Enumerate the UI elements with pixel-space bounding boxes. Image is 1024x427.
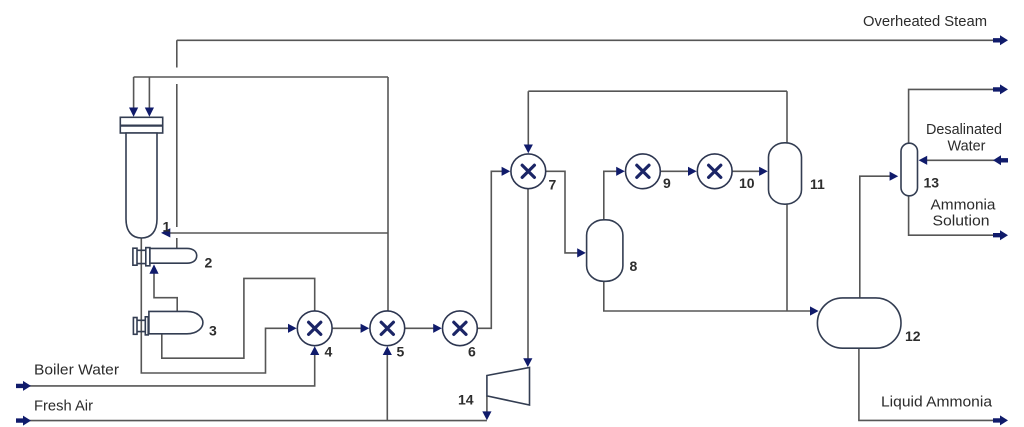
svg-text:2: 2 — [205, 255, 213, 271]
svg-text:8: 8 — [630, 258, 638, 274]
svg-text:Fresh Air: Fresh Air — [34, 398, 93, 415]
mixer 4 cross — [309, 322, 321, 334]
svg-text:11: 11 — [810, 176, 825, 192]
svg-text:Boiler Water: Boiler Water — [34, 362, 119, 379]
drum 2 body — [150, 248, 197, 263]
wire mixer 7 down to turbine 14 — [527, 189, 529, 360]
svg-text:Solution: Solution — [933, 213, 990, 230]
drum 2 left flange outer — [133, 248, 137, 265]
drum 3 neck tube — [137, 320, 145, 331]
svg-text:13: 13 — [924, 175, 940, 191]
arrow into vessel 11 left — [759, 167, 768, 176]
vessel 8 — [587, 220, 623, 281]
wire vessel 12 bottom to liquid ammonia outlet — [859, 348, 1000, 420]
svg-text:6: 6 — [468, 344, 476, 360]
svg-text:9: 9 — [663, 175, 671, 191]
arrow into mixer 10 left — [688, 167, 697, 176]
vessel 1 cap flange — [120, 117, 162, 133]
arrow into vessel 13 right — [919, 156, 928, 165]
drum 3 left flange outer — [133, 318, 137, 335]
block arrow fresh air inlet — [16, 416, 31, 426]
wire mixer 7 top riser and header to vessel 11 — [528, 91, 787, 146]
wire mixer 6 right up into mixer 7 — [477, 171, 503, 328]
arrow into vessel 13 left — [890, 172, 899, 181]
svg-text:12: 12 — [905, 328, 921, 344]
svg-text:Water: Water — [948, 138, 986, 155]
block arrow liquid ammonia outlet — [993, 415, 1008, 425]
arrow into vessel 12 left — [810, 306, 819, 315]
block arrow desalinated water inlet (points left) — [993, 155, 1008, 165]
svg-text:4: 4 — [325, 344, 333, 360]
wire desalinated water inlet — [926, 159, 1006, 161]
wire drop into vessel 1 cap right — [148, 77, 150, 108]
arrow into mixer 9 left — [616, 167, 625, 176]
wire y233 return line into vessel 1 bottom — [169, 232, 388, 234]
svg-text:Ammonia: Ammonia — [931, 197, 997, 214]
wire steam riser from item 2 top to header (segments with crossing gaps) — [176, 40, 178, 248]
vessel 1 body — [126, 133, 157, 238]
mixer 6 cross — [454, 322, 466, 334]
wire mixer 7 to vessel 8 — [546, 171, 578, 253]
wire mixer 10 to vessel 11 — [732, 170, 760, 172]
mixer 9 — [626, 154, 661, 189]
wire boiler water inlet — [29, 355, 315, 386]
arrow into mixer 4 left — [288, 324, 297, 333]
arrow down at fresh air line end — [482, 411, 491, 420]
arrow into mixer 6 left — [433, 324, 442, 333]
wire vessel 12 top to vessel 13 left — [860, 176, 891, 298]
wire drop into vessel 1 cap left — [133, 77, 135, 108]
wire mixer 4 to mixer 5 — [332, 327, 362, 329]
drum 3 body — [149, 311, 203, 333]
mixer 5 — [370, 311, 405, 346]
svg-text:Overheated Steam: Overheated Steam — [863, 13, 987, 30]
mixer 6 — [443, 311, 478, 346]
arrow into vessel 8 left — [577, 248, 586, 257]
mixer 7 — [511, 154, 546, 189]
mixer circles — [297, 154, 732, 346]
arrow into mixer 7 left — [502, 167, 511, 176]
vessel 12 — [817, 298, 901, 348]
wire mixer 9 to mixer 10 — [660, 170, 689, 172]
vessel 11 — [769, 143, 802, 204]
mixer 10 cross — [709, 165, 721, 177]
arrow into turbine 14 top — [523, 358, 532, 367]
arrow into vessel 1 cap right — [145, 108, 154, 117]
svg-text:Liquid Ammonia: Liquid Ammonia — [881, 394, 993, 411]
wire vessel 11 bottom to junction — [786, 204, 788, 311]
drum 2 neck tube — [137, 250, 146, 263]
svg-text:5: 5 — [397, 344, 405, 360]
svg-text:14: 14 — [458, 392, 474, 408]
mixer 4 — [297, 311, 332, 346]
wire fresh air inlet — [29, 420, 487, 422]
block arrow boiler water inlet — [16, 381, 31, 391]
wire mixer 5 to mixer 6 — [405, 327, 435, 329]
wire turbine 14 exhaust down to fresh air line — [486, 396, 488, 412]
drum 2 left flange inner — [146, 248, 150, 266]
block arrow desalinated top outlet — [993, 84, 1008, 94]
wire vessel 8 top to mixer 9 — [604, 171, 617, 220]
arrow into mixer 5 bottom — [383, 346, 392, 355]
wire fresh air branch up into mixer 5 — [386, 355, 388, 421]
svg-text:7: 7 — [549, 177, 557, 193]
mixer 5 cross — [381, 322, 393, 334]
wire item 3 to item 2 feed — [154, 271, 177, 311]
arrow into mixer 4 bottom — [310, 346, 319, 355]
arrow into vessel 1 cap left — [129, 108, 138, 117]
svg-text:Desalinated: Desalinated — [926, 121, 1002, 138]
mixer 10 — [697, 154, 732, 189]
wire overheated steam header from x176 to right edge — [177, 39, 1000, 41]
arrow into mixer 7 top — [524, 145, 533, 154]
arrow into mixer 5 left — [361, 324, 370, 333]
wire vessel 8 bottom to vessel 12 — [604, 281, 811, 311]
turbine 14 — [487, 368, 530, 406]
drum 3 left flange inner — [145, 317, 148, 335]
mixer 9 cross — [637, 165, 649, 177]
svg-text:10: 10 — [739, 175, 755, 191]
svg-text:3: 3 — [209, 323, 217, 339]
arrow up into drum 2 — [149, 264, 158, 273]
wire item 3 bottom to mixer 4 top — [162, 278, 315, 358]
mixer 7 cross — [522, 165, 534, 177]
wire vessel 11 top riser — [786, 91, 788, 143]
svg-text:1: 1 — [163, 219, 171, 235]
wire right leg x388 down to mixer 5 top — [387, 77, 389, 311]
arrow into vessel 1 bottom right — [161, 228, 170, 237]
block arrow overheated steam outlet — [993, 35, 1008, 45]
wire recycle header y77 — [134, 76, 388, 78]
wire vessel 1 bottom down, right, up into mixer 4 — [141, 238, 289, 373]
wire vessel 13 top to overhead outlet — [909, 89, 1000, 143]
block arrow ammonia solution outlet — [993, 230, 1008, 240]
wire vessel 13 bottom to ammonia solution outlet — [909, 196, 1000, 235]
vessel 13 — [901, 143, 918, 196]
